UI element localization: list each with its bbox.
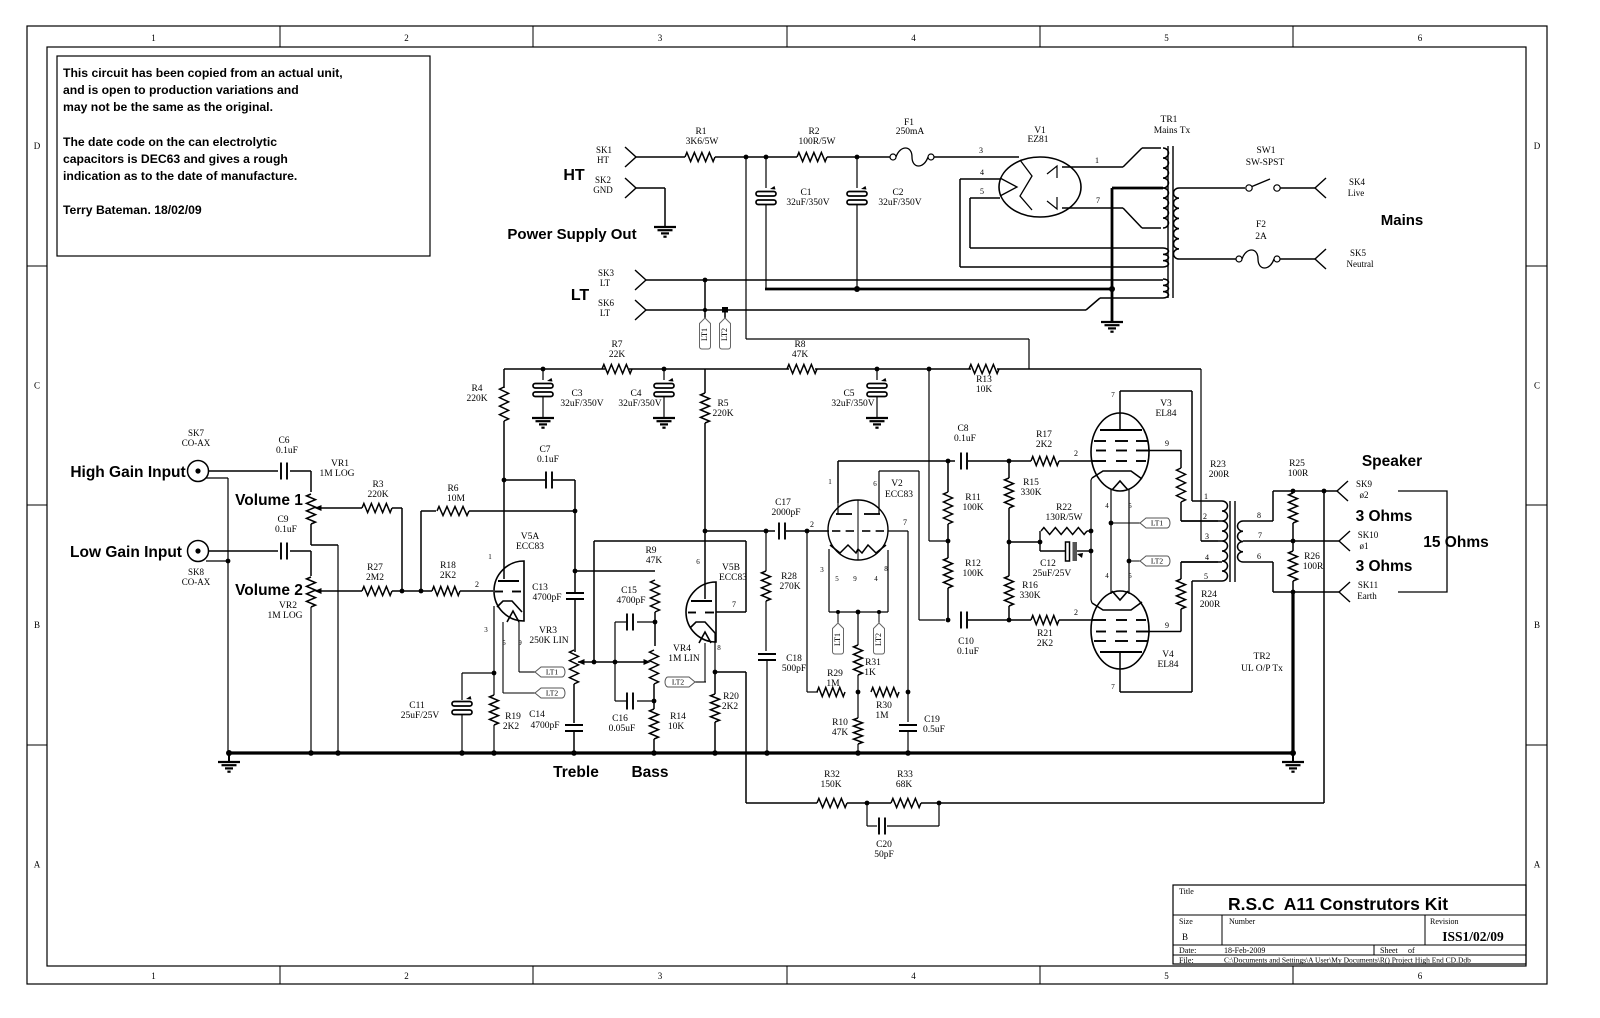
node junction R6 tap <box>419 589 424 594</box>
V5A internal heater <box>507 611 519 622</box>
node junction R11 R12 midpoint <box>947 524 949 558</box>
node junction R6 to anode line <box>573 509 578 514</box>
svg-text:SK4: SK4 <box>1349 177 1366 187</box>
wire SK3 to TR1 winding D top <box>646 279 1163 281</box>
wire rail to TR2 tap3 <box>1200 369 1202 541</box>
svg-text:25uF/25V: 25uF/25V <box>401 711 440 721</box>
svg-text:47K: 47K <box>792 350 809 360</box>
wire heater pin4 to TR1 winding C bottom <box>960 266 1163 268</box>
svg-text:TR1: TR1 <box>1161 115 1178 125</box>
svg-text:9: 9 <box>1165 439 1169 448</box>
node junction R33 right <box>921 802 939 804</box>
wire C10 to R16/R21 node <box>968 619 1009 621</box>
svg-text:R28: R28 <box>781 572 797 582</box>
svg-text:1M LIN: 1M LIN <box>668 654 700 664</box>
svg-text:2K2: 2K2 <box>1036 440 1053 450</box>
svg-text:LT2: LT2 <box>1151 557 1163 566</box>
wire heater pin5 to TR1 winding C top <box>970 247 1163 249</box>
svg-text:C: C <box>1534 381 1540 391</box>
wire cathode node to C11 <box>462 672 494 674</box>
wire F1 to V1 pin 3 <box>934 156 1019 158</box>
svg-text:7: 7 <box>1096 196 1100 205</box>
TR1 secondary winding A HT upper <box>1163 148 1169 188</box>
node junction R3/R27 <box>400 589 405 594</box>
wire VR3 wiper to VR4 wiper <box>578 661 645 663</box>
svg-text:A: A <box>34 860 41 870</box>
ground symbol bus right <box>1290 750 1296 756</box>
V2 center divider <box>857 500 859 560</box>
svg-text:8: 8 <box>884 565 888 573</box>
svg-text:1K: 1K <box>864 668 876 678</box>
svg-text:10K: 10K <box>668 722 685 732</box>
svg-text:C7: C7 <box>539 445 550 455</box>
svg-text:1: 1 <box>1204 492 1208 501</box>
svg-text:22K: 22K <box>609 350 626 360</box>
wire C17 to V2 grid <box>786 530 829 532</box>
svg-text:C5: C5 <box>843 389 854 399</box>
svg-text:6: 6 <box>1418 971 1423 981</box>
svg-text:2: 2 <box>1074 449 1078 458</box>
wire SW1 to SK4 <box>1280 187 1315 189</box>
svg-text:8: 8 <box>1257 511 1261 520</box>
wire VR2 bottom to bus <box>310 607 312 753</box>
ground symbol bus left <box>226 750 232 756</box>
svg-text:R16: R16 <box>1022 581 1038 591</box>
V5A internal cathode <box>497 601 522 612</box>
wire R9 feed <box>575 570 655 572</box>
svg-text:68K: 68K <box>896 780 913 790</box>
svg-text:5: 5 <box>1204 572 1208 581</box>
connector SK4 Live <box>1315 178 1326 188</box>
svg-text:C16: C16 <box>612 714 628 724</box>
V1 internal heater arrow <box>1000 178 1017 196</box>
svg-text:GND: GND <box>593 185 613 195</box>
svg-text:V2: V2 <box>891 479 903 489</box>
wire F2 to SK5 <box>1280 258 1315 260</box>
svg-text:ISS1/02/09: ISS1/02/09 <box>1442 929 1504 944</box>
wire feedback down crossing bus <box>745 672 747 803</box>
border row ticks left/right <box>27 265 47 267</box>
svg-text:R5: R5 <box>717 399 728 409</box>
V1 internal anode hooks right <box>1047 166 1057 178</box>
svg-text:LT2: LT2 <box>720 328 729 341</box>
wire VR1 wiper to R3 <box>320 507 362 509</box>
V3 cathode lead to bus <box>1091 478 1092 480</box>
svg-text:1: 1 <box>151 33 156 43</box>
svg-text:2K2: 2K2 <box>503 722 520 732</box>
svg-text:3: 3 <box>658 33 663 43</box>
svg-text:R14: R14 <box>670 712 686 722</box>
wire SK1 to R1 <box>636 156 685 158</box>
svg-text:9: 9 <box>1165 621 1169 630</box>
svg-text:Size: Size <box>1179 917 1193 926</box>
V2 pin 9 cathode resistor R31 1K <box>857 612 859 645</box>
svg-text:VR3: VR3 <box>539 626 557 636</box>
ground symbol TR1 center tap <box>1101 321 1123 323</box>
node junction R17 C8 R15 <box>1007 459 1012 464</box>
svg-text:V5B: V5B <box>722 563 740 573</box>
svg-text:4: 4 <box>1205 553 1209 562</box>
wire VR3 to C14 <box>573 684 575 723</box>
svg-text:C12: C12 <box>1040 559 1056 569</box>
svg-text:R12: R12 <box>965 559 981 569</box>
TR2 secondary winding <box>1238 521 1244 562</box>
svg-text:6: 6 <box>873 480 877 488</box>
svg-text:Low Gain Input: Low Gain Input <box>70 544 182 561</box>
svg-text:C1: C1 <box>800 188 811 198</box>
svg-text:130R/5W: 130R/5W <box>1046 513 1083 523</box>
svg-text:R10: R10 <box>832 718 848 728</box>
svg-text:R21: R21 <box>1037 629 1053 639</box>
svg-text:0.05uF: 0.05uF <box>609 724 636 734</box>
svg-text:10M: 10M <box>447 494 466 504</box>
svg-text:1M: 1M <box>875 711 889 721</box>
svg-text:VR4: VR4 <box>673 644 691 654</box>
svg-text:R1: R1 <box>695 127 706 137</box>
node junction SK8 shield <box>226 559 231 564</box>
svg-text:SK7: SK7 <box>188 428 205 438</box>
svg-text:LT2: LT2 <box>546 689 558 698</box>
wire R2 to F1 <box>827 156 890 158</box>
svg-text:This circuit has been copied f: This circuit has been copied from an act… <box>63 66 343 80</box>
svg-text:R18: R18 <box>440 561 456 571</box>
svg-text:F2: F2 <box>1256 220 1266 230</box>
node junction C4 <box>662 367 667 372</box>
V5A internal grid dashes <box>495 591 503 593</box>
svg-text:1M LOG: 1M LOG <box>319 469 354 479</box>
wire V5B anode up <box>704 531 706 599</box>
net flag LT2 at V5A <box>535 688 565 698</box>
svg-text:SK2: SK2 <box>595 175 611 185</box>
svg-text:SW-SPST: SW-SPST <box>1246 158 1285 168</box>
svg-text:0.1uF: 0.1uF <box>276 446 298 456</box>
node junction wiper line x615 <box>613 660 618 665</box>
svg-text:of: of <box>1408 946 1415 955</box>
svg-text:7: 7 <box>732 600 736 609</box>
svg-text:R11: R11 <box>965 493 981 503</box>
svg-text:Revision: Revision <box>1430 917 1458 926</box>
node junction V5B anode <box>703 529 708 534</box>
V4 internal cathode hat <box>1092 602 1142 610</box>
svg-text:C15: C15 <box>621 586 637 596</box>
node junction LT2 heater <box>1127 559 1132 564</box>
svg-text:3 Ohms: 3 Ohms <box>1356 558 1413 575</box>
svg-text:8: 8 <box>717 644 721 652</box>
V3 internal heater <box>1112 481 1128 490</box>
svg-text:32uF/350V: 32uF/350V <box>560 399 603 409</box>
node junction VR4 bottom <box>652 699 657 704</box>
svg-text:R17: R17 <box>1036 430 1052 440</box>
svg-text:R19: R19 <box>505 712 521 722</box>
svg-text:SK10: SK10 <box>1358 530 1379 540</box>
svg-text:R15: R15 <box>1023 478 1039 488</box>
svg-text:R3: R3 <box>372 480 383 490</box>
svg-text:1: 1 <box>488 553 492 561</box>
node junction R29 R30 center <box>856 690 861 695</box>
svg-text:SK8: SK8 <box>188 567 205 577</box>
node junction center tap at LT bus <box>1109 286 1115 292</box>
svg-text:Title: Title <box>1179 887 1194 896</box>
svg-text:C6: C6 <box>278 436 289 446</box>
svg-text:R27: R27 <box>367 563 383 573</box>
svg-text:V4: V4 <box>1162 650 1174 660</box>
wire feedback line <box>746 802 817 804</box>
svg-text:ECC83: ECC83 <box>516 542 544 552</box>
node junction V2 grid pin 2 <box>805 529 810 534</box>
svg-text:7: 7 <box>1111 683 1115 691</box>
15 Ohms bracket <box>1398 491 1447 592</box>
wire SK7 to C6 <box>209 470 278 472</box>
V5B internal heater <box>699 632 711 643</box>
svg-text:2: 2 <box>404 971 409 981</box>
svg-text:4: 4 <box>874 575 878 583</box>
svg-text:R22: R22 <box>1056 503 1072 513</box>
svg-text:2000pF: 2000pF <box>771 508 800 518</box>
wire R1 to R2 with junctions <box>715 156 797 158</box>
svg-text:R2: R2 <box>808 127 819 137</box>
svg-text:47K: 47K <box>646 556 663 566</box>
node junction C10 left <box>946 618 951 623</box>
net flag LT1 at EL84s <box>1140 518 1170 528</box>
thick wire R26 to ground bus <box>1291 592 1294 753</box>
svg-text:R31: R31 <box>865 658 881 668</box>
wire VR1 bottom to ground drop <box>310 524 312 545</box>
svg-text:C14: C14 <box>529 710 545 720</box>
svg-text:0.1uF: 0.1uF <box>275 525 297 535</box>
node junction LT2 tap square <box>722 307 728 313</box>
svg-text:LT: LT <box>600 308 611 318</box>
svg-text:2K2: 2K2 <box>1037 639 1054 649</box>
svg-text:UL O/P Tx: UL O/P Tx <box>1241 664 1283 674</box>
node junction LT1 heater <box>1109 521 1114 526</box>
net flag LT2 at EL84s <box>1140 556 1170 566</box>
svg-text:220K: 220K <box>466 394 487 404</box>
svg-text:ø2: ø2 <box>1360 490 1369 500</box>
wire C2 to LT ground bus <box>856 204 858 289</box>
net flag LT2 at V2 <box>874 623 885 654</box>
svg-text:Power Supply Out: Power Supply Out <box>507 226 636 243</box>
svg-text:2: 2 <box>1203 512 1207 521</box>
svg-text:SW1: SW1 <box>1257 146 1276 156</box>
svg-text:50pF: 50pF <box>874 850 894 860</box>
node junction V2 supply drop <box>927 367 932 372</box>
svg-text:B: B <box>34 620 40 630</box>
grid leak line from pin2 <box>806 531 808 692</box>
svg-text:VR2: VR2 <box>279 601 297 611</box>
node junction SK11 line <box>1291 590 1296 595</box>
capacitor C2 32uF/350V electrolytic <box>856 157 858 188</box>
V3 internal cathode hat <box>1092 471 1142 479</box>
svg-text:R20: R20 <box>723 692 739 702</box>
svg-text:C: C <box>34 381 40 391</box>
connector SK11 Earth <box>1339 582 1350 592</box>
svg-text:4700pF: 4700pF <box>616 596 645 606</box>
node junction R22 tap left <box>1038 540 1043 545</box>
svg-text:Bass: Bass <box>631 764 668 781</box>
svg-text:1: 1 <box>151 971 156 981</box>
svg-text:2: 2 <box>475 580 479 589</box>
svg-text:R25: R25 <box>1289 459 1305 469</box>
node junction C1 tap <box>764 155 769 160</box>
svg-text:220K: 220K <box>712 409 733 419</box>
node junction cathode bus R22 <box>1089 529 1094 534</box>
wire VR4 to R14 <box>653 684 655 709</box>
wire SK8 to C9 <box>209 550 278 552</box>
node junction C3 <box>541 367 546 372</box>
svg-text:VR1: VR1 <box>331 459 349 469</box>
svg-text:Volume 2: Volume 2 <box>235 582 303 599</box>
main ground bus thick wire <box>229 751 1294 754</box>
svg-text:2: 2 <box>810 520 814 529</box>
node junction feedback tap <box>1322 489 1327 494</box>
svg-text:4: 4 <box>980 168 984 177</box>
supply drop wire from rail to R11 R12 midpoint <box>928 369 930 541</box>
svg-text:3: 3 <box>820 566 824 574</box>
node junction R28 tap <box>764 529 769 534</box>
svg-text:200R: 200R <box>1209 470 1230 480</box>
wire C9 to VR2 <box>290 550 311 552</box>
capacitor C3 32uF/350V with ground <box>542 369 544 380</box>
V5B internal cathode <box>690 622 715 633</box>
svg-text:SK1: SK1 <box>596 145 612 155</box>
svg-text:Neutral: Neutral <box>1347 259 1374 269</box>
node junction C2 on LT bus <box>854 286 860 292</box>
svg-text:Number: Number <box>1229 917 1256 926</box>
svg-text:32uF/350V: 32uF/350V <box>786 198 829 208</box>
svg-text:C8: C8 <box>957 424 968 434</box>
V2 cathode double hat <box>830 545 858 553</box>
node junction anode line to R9 <box>573 569 578 574</box>
svg-text:32uF/350V: 32uF/350V <box>831 399 874 409</box>
svg-text:0.1uF: 0.1uF <box>957 647 979 657</box>
svg-text:9: 9 <box>853 575 857 583</box>
svg-text:R4: R4 <box>471 384 482 394</box>
ground link SK7 to SK8 to bus <box>206 477 228 479</box>
V5B internal grid dashes <box>688 612 696 614</box>
TR1 primary winding <box>1174 188 1180 259</box>
svg-text:3 Ohms: 3 Ohms <box>1356 508 1413 525</box>
svg-text:15 Ohms: 15 Ohms <box>1423 534 1488 551</box>
svg-text:C20: C20 <box>876 840 892 850</box>
svg-text:2K2: 2K2 <box>440 571 457 581</box>
svg-text:B: B <box>1534 620 1540 630</box>
svg-text:1: 1 <box>828 478 832 486</box>
svg-text:0.1uF: 0.1uF <box>537 455 559 465</box>
svg-text:C19: C19 <box>924 715 940 725</box>
capacitor C4 32uF/350V with ground <box>663 369 665 380</box>
svg-text:4700pF: 4700pF <box>532 593 561 603</box>
svg-text:SK3: SK3 <box>598 268 615 278</box>
svg-text:270K: 270K <box>779 582 800 592</box>
svg-text:C4: C4 <box>630 389 641 399</box>
node junction C7 tap <box>502 478 507 483</box>
svg-text:2M2: 2M2 <box>366 573 384 583</box>
node junction LT1 tap <box>703 278 708 283</box>
svg-text:B: B <box>1182 932 1188 942</box>
svg-text:LT: LT <box>600 278 611 288</box>
svg-text:4: 4 <box>1105 572 1109 580</box>
svg-text:ECC83: ECC83 <box>885 490 913 500</box>
svg-text:4: 4 <box>1105 502 1109 510</box>
svg-text:D: D <box>1534 141 1541 151</box>
wire R18 to V5A grid pin 2 <box>460 590 493 592</box>
svg-text:Terry Bateman. 18/02/09: Terry Bateman. 18/02/09 <box>63 203 202 217</box>
wire TR1 winding D bottom to SK6 diagonal <box>1100 297 1163 299</box>
svg-text:R6: R6 <box>447 484 458 494</box>
notes text box <box>57 56 430 256</box>
svg-text:R9: R9 <box>645 546 656 556</box>
svg-text:SK11: SK11 <box>1358 580 1378 590</box>
svg-text:R13: R13 <box>976 375 992 385</box>
svg-text:100R/5W: 100R/5W <box>799 137 836 147</box>
V2 anode structures <box>836 513 852 515</box>
svg-text:4: 4 <box>911 33 916 43</box>
wire SK2 to ground <box>636 187 665 189</box>
svg-text:3: 3 <box>484 626 488 634</box>
node junction R1-R2 wire down <box>744 155 749 160</box>
wire R23 to TR2 tap2 <box>1180 502 1182 521</box>
svg-text:250mA: 250mA <box>896 127 925 137</box>
svg-text:0.5uF: 0.5uF <box>923 725 945 735</box>
wire C6 to VR1 <box>290 470 311 472</box>
svg-text:5: 5 <box>1164 33 1169 43</box>
TR1 HT center tap thick wire to ground <box>1112 187 1163 190</box>
wire feedback to speaker tap <box>939 802 1324 804</box>
svg-text:250K LIN: 250K LIN <box>529 636 568 646</box>
wire R27 to junction <box>392 590 432 592</box>
svg-text:CO-AX: CO-AX <box>182 577 211 587</box>
svg-text:32uF/350V: 32uF/350V <box>878 198 921 208</box>
svg-text:25uF/25V: 25uF/25V <box>1033 569 1072 579</box>
TR1 core <box>1167 146 1169 298</box>
svg-text:SK6: SK6 <box>598 298 615 308</box>
net flag LT1 at V2 <box>833 623 844 654</box>
wire tone output up to V5B grid line <box>593 541 595 662</box>
V5B heater net flag LT2 <box>704 643 706 682</box>
node junction R9 bottom C15 <box>654 612 656 646</box>
connector SK10 #1 <box>1339 531 1350 541</box>
svg-text:LT1: LT1 <box>546 668 558 677</box>
svg-text:Live: Live <box>1348 188 1365 198</box>
V4 internal grid rows <box>1094 640 1106 642</box>
svg-text:LT1: LT1 <box>700 328 709 341</box>
svg-text:Speaker: Speaker <box>1362 453 1422 470</box>
TR2 core <box>1229 501 1231 582</box>
wire VR2 wiper to R27 <box>320 590 362 592</box>
svg-text:A: A <box>1534 860 1541 870</box>
wire R21 to V4 grid <box>1059 619 1092 621</box>
svg-text:High Gain Input: High Gain Input <box>70 464 185 481</box>
svg-text:100K: 100K <box>962 569 983 579</box>
svg-text:2: 2 <box>404 33 409 43</box>
svg-text:ø1: ø1 <box>1360 541 1369 551</box>
svg-text:D: D <box>34 141 41 151</box>
svg-text:330K: 330K <box>1019 591 1040 601</box>
wire C7 node down treble chain <box>574 511 576 593</box>
svg-text:EZ81: EZ81 <box>1027 135 1048 145</box>
svg-text:18-Feb-2009: 18-Feb-2009 <box>1224 946 1265 955</box>
svg-text:6: 6 <box>1257 552 1261 561</box>
svg-text:5: 5 <box>1164 971 1169 981</box>
svg-text:200R: 200R <box>1200 600 1221 610</box>
svg-text:6: 6 <box>696 558 700 566</box>
svg-text:LT2: LT2 <box>672 678 684 687</box>
svg-text:500pF: 500pF <box>782 664 806 674</box>
svg-text:100R: 100R <box>1288 469 1309 479</box>
svg-text:330K: 330K <box>1020 488 1041 498</box>
wire C1 to LT ground bus <box>765 204 767 289</box>
svg-text:File:: File: <box>1179 956 1194 965</box>
